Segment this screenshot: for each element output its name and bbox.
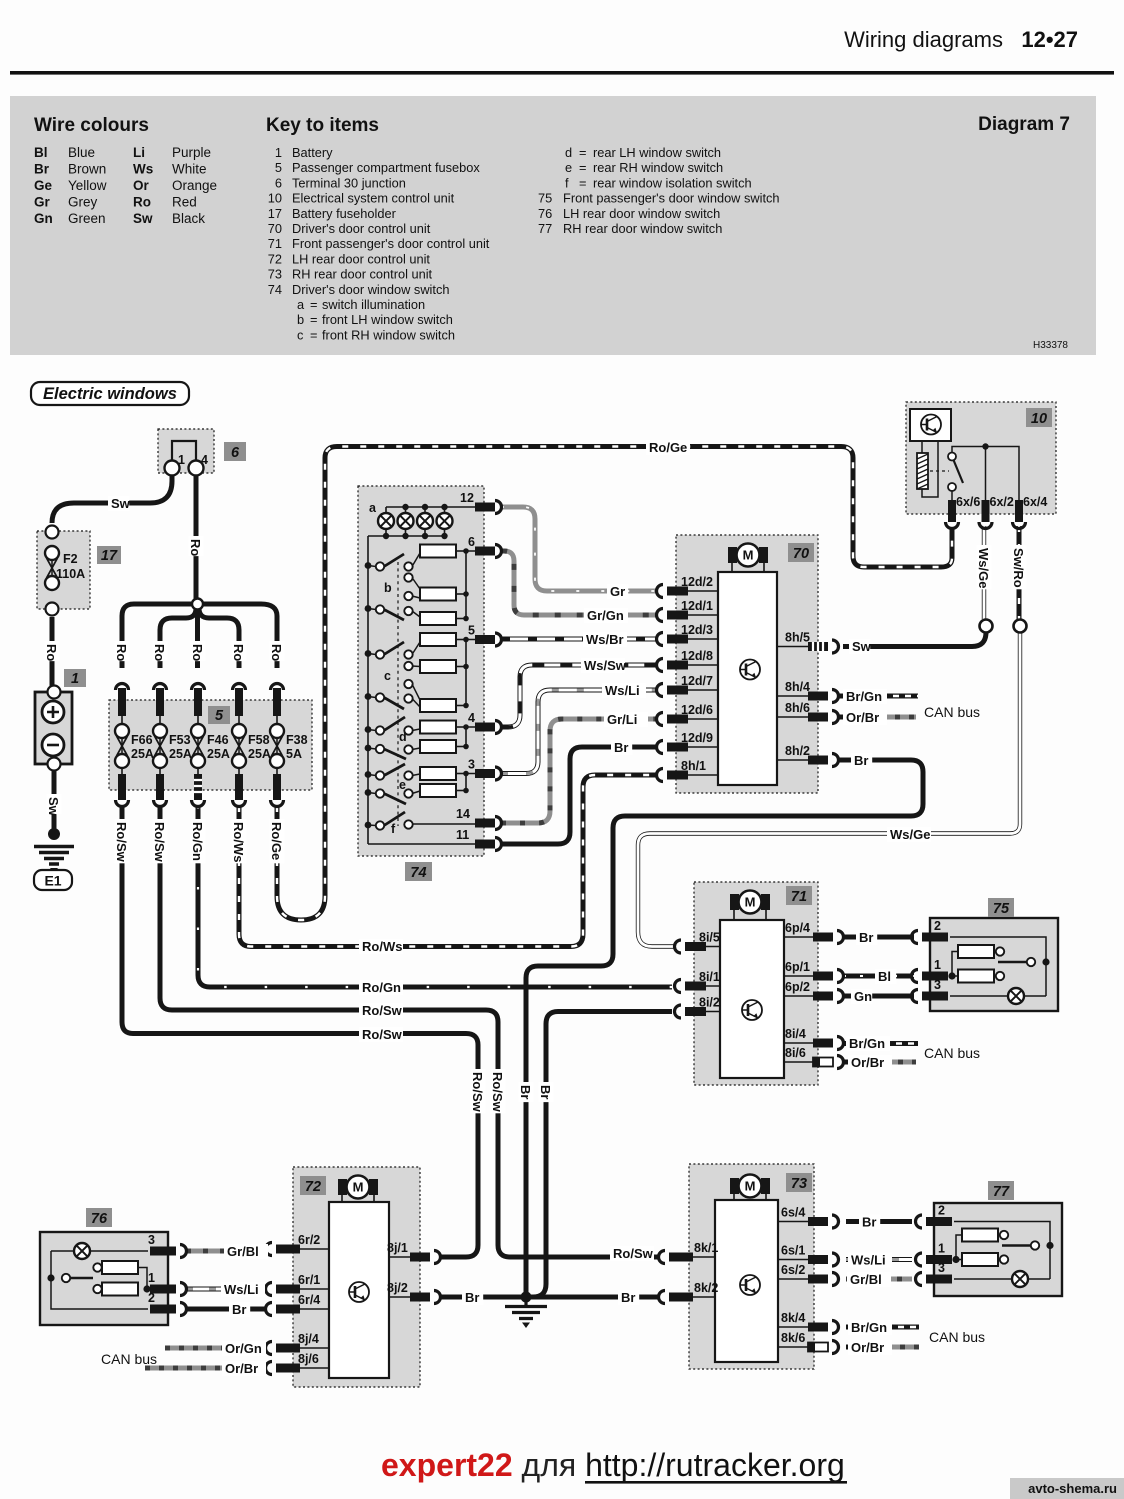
- wire: Br from 6s/4 to switch 77 pin 2: [846, 1219, 912, 1224]
- svg-text:6x/4: 6x/4: [1023, 495, 1047, 509]
- svg-text:front LH window switch: front LH window switch: [322, 312, 453, 327]
- svg-text:5: 5: [215, 708, 224, 724]
- svg-text:Or/Gn: Or/Gn: [225, 1341, 262, 1356]
- svg-text:8h/5: 8h/5: [785, 631, 810, 645]
- wire: Or/Gn CAN stub at 8j/4: [165, 1346, 265, 1351]
- svg-text:1: 1: [275, 145, 282, 160]
- svg-text:2: 2: [148, 1291, 155, 1305]
- fuse F46 25A: [191, 714, 230, 780]
- wire: Or/Br CAN stub at 8i/6: [843, 1060, 849, 1065]
- svg-text:Battery: Battery: [292, 145, 333, 160]
- fusebox connector above fuse F46: [192, 684, 205, 717]
- fuse F2 110A: [51, 553, 53, 583]
- wire label Ro/Gn: [359, 980, 403, 995]
- wire label Sw (junction 6 to fuseholder): [108, 496, 129, 511]
- rotated label Br vertical 2: [539, 1082, 554, 1102]
- fusebox connector above fuse F58: [233, 684, 246, 717]
- pin 2 of 77: [916, 1204, 952, 1229]
- svg-text:5: 5: [275, 160, 282, 175]
- pin 11 of 74: [456, 828, 502, 851]
- svg-text:a: a: [369, 501, 377, 515]
- svg-text:Br/Gn: Br/Gn: [849, 1036, 885, 1051]
- svg-text:Passenger compartment fusebox: Passenger compartment fusebox: [292, 160, 480, 175]
- pin 6r/2 of 72: [266, 1233, 329, 1256]
- wire: Br/Gn CAN stub at 8k/4: [846, 1325, 854, 1330]
- svg-text:Ro/Gn: Ro/Gn: [362, 980, 401, 995]
- pin 12d/9 of 70: [657, 731, 719, 754]
- svg-text:Gr/Bl: Gr/Bl: [850, 1272, 882, 1287]
- badge 17: [97, 546, 121, 564]
- pin 8i/6 of 71: [784, 1046, 844, 1069]
- svg-text:avto-shema.ru: avto-shema.ru: [1028, 1481, 1117, 1496]
- pin 8h/2 of 70: [777, 744, 839, 767]
- badge 75: [988, 898, 1014, 917]
- svg-text:17: 17: [101, 548, 118, 564]
- svg-text:Sw: Sw: [133, 211, 153, 226]
- svg-text:LH rear door window switch: LH rear door window switch: [563, 206, 720, 221]
- svg-text:White: White: [172, 162, 207, 177]
- svg-text:Ro/Sw: Ro/Sw: [613, 1246, 654, 1261]
- unit 72 body: [329, 1202, 389, 1378]
- switch 77 internals: [952, 1222, 1053, 1288]
- svg-text:CAN bus: CAN bus: [929, 1329, 985, 1345]
- svg-text:8h/6: 8h/6: [785, 701, 810, 715]
- wire label Br 6s/4: [859, 1215, 880, 1230]
- svg-text:E1: E1: [44, 873, 61, 889]
- svg-text:Li: Li: [133, 145, 145, 160]
- svg-text:8j/2: 8j/2: [387, 1281, 408, 1295]
- unit 73 body: [715, 1200, 778, 1362]
- rotated label Ws/Ge: [977, 545, 992, 589]
- pin 6p/1 of 71: [784, 960, 844, 983]
- wire: Ws/Li from switch 76 pin 1 to 6r/1: [186, 1287, 265, 1292]
- page header title: [844, 27, 1078, 52]
- unit 71 driver transistor: [742, 1000, 762, 1020]
- wire: Br from ground junction up to unit 71 pin 8i/2: [533, 1012, 672, 1298]
- svg-text:b: b: [384, 581, 392, 595]
- svg-text:Ws/Sw: Ws/Sw: [584, 658, 627, 673]
- pin 3 of 75: [912, 978, 949, 1003]
- wire label Bl 6p/1: [875, 969, 896, 984]
- badge 70: [788, 543, 814, 562]
- unit 10 driver box with transistor: [910, 409, 951, 441]
- switch 74 section b: [365, 553, 420, 620]
- rotated wire labels below fusebox: [115, 819, 130, 863]
- wire: Gr/Bl from switch 76 pin 3 to 6r/2: [186, 1249, 265, 1254]
- pin 3 of 77: [916, 1261, 952, 1286]
- svg-text:=: =: [310, 297, 317, 312]
- svg-text:Ro/Sw: Ro/Sw: [152, 822, 167, 863]
- svg-text:8h/4: 8h/4: [785, 680, 810, 694]
- wire: node branch to fuse F38: [198, 604, 277, 668]
- svg-text:=: =: [579, 175, 586, 190]
- wire label Br 76: [229, 1302, 250, 1317]
- rotated label Ro battery feed: [45, 641, 60, 661]
- junction 6 pin circles: [165, 461, 180, 476]
- unit 72 driver transistor: [349, 1282, 369, 1302]
- wire label Br/Gn 8i/4: [846, 1036, 890, 1051]
- wire label Gr/Bl 6s/2: [847, 1272, 891, 1287]
- pin 6r/4 of 72: [266, 1293, 329, 1316]
- wire: Br loop from unit 70 pin 8h/2 to ground junction: [526, 760, 923, 1294]
- wire label Ws/Li 76: [221, 1282, 265, 1297]
- svg-text:72: 72: [305, 1179, 321, 1195]
- svg-text:Ws/Li: Ws/Li: [851, 1253, 886, 1268]
- pin 6s/2 of 73: [778, 1263, 839, 1286]
- svg-text:4: 4: [468, 711, 475, 725]
- unit 73 motor: [730, 1175, 770, 1204]
- svg-text:=: =: [579, 145, 586, 160]
- svg-text:Ro: Ro: [44, 644, 59, 661]
- svg-text:M: M: [745, 895, 756, 910]
- pin 8i/1 of 71: [675, 970, 721, 993]
- earth tag E1: [34, 870, 72, 890]
- wire label Gr/Bl 76: [224, 1244, 268, 1259]
- svg-text:Or/Br: Or/Br: [846, 710, 879, 725]
- fusebox connector below fuse F53: [154, 774, 167, 807]
- svg-text:RH rear door window switch: RH rear door window switch: [563, 221, 722, 236]
- svg-text:M: M: [745, 1179, 756, 1194]
- svg-text:Br: Br: [465, 1290, 479, 1305]
- pin 14 of 74: [456, 807, 502, 830]
- wire: Sw/Ro from unit 10 pin 6x/4 down to connector node: [1017, 526, 1022, 619]
- wire: Ws/Br from switch 74 pin 5 to unit 70 pin 12d/3: [501, 637, 656, 642]
- unit 71 body: [720, 920, 784, 1078]
- fusebox 5 box: [109, 700, 312, 790]
- electrical system control unit 10 box: [906, 402, 1056, 514]
- door control unit 71 box: [694, 882, 818, 1085]
- svg-text:14: 14: [456, 807, 470, 821]
- wire: Ro/Sw from F53 to door unit 73 pin 8k/1: [160, 806, 658, 1257]
- pin 8h/1 of 70: [657, 759, 719, 782]
- svg-text:RH rear door control unit: RH rear door control unit: [292, 267, 433, 282]
- svg-text:=: =: [310, 327, 317, 342]
- switch 74 section f: [365, 812, 413, 836]
- battery plus terminal: [42, 701, 64, 723]
- svg-text:Or/Br: Or/Br: [225, 1361, 258, 1376]
- svg-text:Driver's door window switch: Driver's door window switch: [292, 282, 449, 297]
- section label: Electric windows: [31, 382, 189, 405]
- pin 8j/1 of 72: [387, 1241, 441, 1264]
- svg-text:Br: Br: [614, 740, 628, 755]
- svg-text:Ro: Ro: [188, 539, 203, 556]
- svg-text:Wire colours: Wire colours: [34, 115, 149, 136]
- wire label Ws/Li: [602, 683, 646, 698]
- svg-text:6x/6: 6x/6: [956, 495, 980, 509]
- connector node on Ws/Ge wire: [980, 620, 993, 633]
- unit 71 motor: [730, 891, 770, 920]
- svg-text:F38: F38: [286, 733, 308, 747]
- svg-text:25A: 25A: [131, 747, 154, 761]
- svg-text:Gn: Gn: [34, 211, 53, 226]
- switch 74 left rail: [367, 536, 369, 844]
- fusebox connector above fuse F53: [154, 684, 167, 717]
- fusebox connector below fuse F66: [116, 774, 129, 807]
- wire: Or/Br CAN stub at 8j/6: [145, 1366, 265, 1371]
- wire: Bl from 6p/1 to switch 75 pin 1: [843, 974, 914, 979]
- pin 8k/2 of 73: [659, 1281, 719, 1304]
- wire: Ws/Ge from unit 10 pin 6x/2 down to connector node: [982, 526, 986, 619]
- svg-text:3: 3: [934, 978, 941, 992]
- wire: fuseholder 17 to battery: [50, 617, 55, 686]
- svg-text:25A: 25A: [248, 747, 271, 761]
- pin 6x/2 of 10: [979, 495, 1014, 529]
- svg-text:Ro: Ro: [152, 644, 167, 661]
- pin 12d/1 of 70: [657, 599, 719, 622]
- wire: Ro/Sw from F66 to door unit 72 pin 8j/1: [122, 806, 478, 1257]
- unit 10 internal wiring: [952, 443, 1019, 500]
- svg-text:17: 17: [268, 206, 282, 221]
- fusebox connector above fuse F38: [271, 684, 284, 717]
- svg-text:CAN bus: CAN bus: [924, 704, 980, 720]
- fusebox connector below fuse F38: [271, 774, 284, 807]
- rotated label Sw/Ro: [1012, 545, 1027, 589]
- svg-text:Ws/Li: Ws/Li: [605, 683, 640, 698]
- svg-text:Wiring diagrams 12•27: Wiring diagrams 12•27: [844, 27, 1078, 52]
- wire: battery negative to ground E1: [52, 769, 57, 830]
- svg-text:6: 6: [275, 175, 282, 190]
- pin 6r/1 of 72: [266, 1273, 329, 1296]
- svg-text:Gr: Gr: [610, 584, 625, 599]
- wire: Br from 6p/4 to switch 75 pin 2: [843, 935, 914, 940]
- svg-text:3: 3: [938, 1261, 945, 1275]
- door control unit 70 box: [676, 535, 818, 793]
- svg-text:1: 1: [71, 671, 79, 687]
- svg-text:3: 3: [148, 1233, 155, 1247]
- svg-text:Ws: Ws: [133, 162, 153, 177]
- svg-text:Black: Black: [172, 211, 205, 226]
- svg-text:c: c: [384, 669, 391, 683]
- door control unit 73 box: [689, 1164, 814, 1369]
- svg-text:Gr/Gn: Gr/Gn: [587, 608, 624, 623]
- svg-text:Or/Br: Or/Br: [851, 1340, 884, 1355]
- wire label Ro/Sw lower: [359, 1027, 403, 1042]
- svg-text:70: 70: [268, 221, 282, 236]
- badge 71: [786, 886, 812, 905]
- wire: Gr from switch 74 pin 12 to unit 70 pin 12d/2: [501, 507, 656, 591]
- unit 70 motor: [728, 544, 768, 573]
- connector node on Sw/Ro wire: [1014, 620, 1027, 633]
- svg-text:77: 77: [538, 221, 552, 236]
- pin 12d/3 of 70: [657, 623, 719, 646]
- unit 10 relay switch: [930, 453, 963, 492]
- pin 1 of 77: [916, 1242, 952, 1267]
- svg-text:Terminal 30 junction: Terminal 30 junction: [292, 175, 406, 190]
- fusebox connector below fuse F58: [233, 774, 246, 807]
- svg-text:M: M: [743, 548, 754, 563]
- wire label Or/Gn 76: [222, 1341, 266, 1356]
- svg-text:F46: F46: [207, 733, 229, 747]
- fuse F66 25A: [115, 714, 154, 780]
- fuse F38 5A: [270, 714, 308, 780]
- svg-text:Ro/Sw: Ro/Sw: [362, 1003, 403, 1018]
- pin 3 of 74: [468, 758, 502, 781]
- badge 77: [988, 1181, 1014, 1200]
- svg-text:1: 1: [938, 1242, 945, 1256]
- wire: node branch to fuse F53: [160, 608, 196, 668]
- wire: Br from switch 76 pin 2 to 6r/4: [186, 1307, 265, 1312]
- svg-text:76: 76: [91, 1211, 108, 1227]
- wire: Ws/Sw from switch 74 pin 4 to unit 70 pin 12d/8: [501, 665, 656, 727]
- svg-text:6p/2: 6p/2: [785, 980, 810, 994]
- pin 8k/6 of 73: [778, 1331, 839, 1354]
- svg-text:LH rear door control unit: LH rear door control unit: [292, 251, 430, 266]
- wire: Sw from connector node to unit 70 pin 8h/5: [843, 632, 986, 647]
- svg-text:Blue: Blue: [68, 145, 95, 160]
- svg-text:70: 70: [793, 546, 809, 562]
- unit 10 relay coil: [917, 441, 938, 497]
- svg-text:75: 75: [993, 901, 1010, 917]
- badge 5: [208, 706, 230, 724]
- ground symbol E1: [34, 847, 74, 874]
- svg-text:3: 3: [468, 758, 475, 772]
- svg-text:11: 11: [456, 828, 469, 842]
- svg-text:Red: Red: [172, 195, 197, 210]
- svg-text:Ro: Ro: [190, 644, 205, 661]
- svg-text:F2: F2: [63, 552, 78, 566]
- battery minus terminal: [42, 734, 64, 756]
- pin 8k/4 of 73: [778, 1311, 839, 1334]
- ground junction dot E1: [48, 828, 60, 840]
- svg-text:25A: 25A: [207, 747, 230, 761]
- wire: Or/Br CAN stub at 8k/6: [846, 1345, 852, 1350]
- wire label Ws/Ge: [887, 827, 931, 842]
- pin 8h/4 of 70: [777, 680, 839, 703]
- wire label Ro/Ws: [359, 939, 403, 954]
- wire label Br left of ground: [462, 1290, 483, 1305]
- svg-text:Ro/Sw: Ro/Sw: [362, 1027, 403, 1042]
- pin 4 of 74: [468, 711, 502, 734]
- svg-text:6r/1: 6r/1: [298, 1273, 320, 1287]
- svg-text:M: M: [353, 1180, 364, 1195]
- svg-text:Ro/Ge: Ro/Ge: [269, 822, 284, 860]
- wire label Gr: [607, 584, 628, 599]
- svg-text:Orange: Orange: [172, 178, 217, 193]
- svg-text:d: d: [565, 145, 572, 160]
- unit 73 driver transistor: [740, 1275, 760, 1295]
- svg-text:Ge: Ge: [34, 178, 53, 193]
- wire label Br 8h/2: [851, 753, 872, 768]
- switch 74 section e: [365, 764, 420, 804]
- svg-text:Ws/Ge: Ws/Ge: [890, 827, 930, 842]
- wire: Gr/Gn from switch 74 pin 6 to unit 70 pin 12d/1: [501, 551, 656, 615]
- svg-text:f: f: [565, 175, 569, 190]
- switch 74 section c: [365, 642, 420, 709]
- svg-text:Electrical system control unit: Electrical system control unit: [292, 191, 455, 206]
- svg-text:Purple: Purple: [172, 145, 211, 160]
- svg-text:1: 1: [148, 1271, 155, 1285]
- pin 1 of 75: [912, 958, 949, 983]
- key list column 1: [268, 145, 490, 342]
- rotated label Br vertical 1: [519, 1082, 534, 1102]
- wire label Br/Gn 8h/4: [843, 689, 887, 704]
- distribution node circle: [192, 599, 203, 610]
- wire label Br/Gn 8k/4: [848, 1320, 892, 1335]
- svg-text:76: 76: [538, 206, 552, 221]
- pin 12 of 74: [460, 491, 502, 514]
- wire label Or/Br 8h/6: [843, 710, 887, 725]
- pin 2 of 75: [912, 919, 949, 944]
- svg-text:75: 75: [538, 191, 552, 206]
- switch 74 resistor contact plates: [420, 545, 456, 798]
- svg-text:6s/2: 6s/2: [781, 1263, 805, 1277]
- svg-text:Br: Br: [862, 1215, 876, 1230]
- svg-text:10: 10: [1031, 411, 1047, 427]
- rotated label Ro on junction-to-node wire: [189, 536, 204, 556]
- pin 12d/2 of 70: [657, 575, 719, 598]
- wire: Ro/Ge from F38 up and across to unit 10 pin 6x/6: [277, 447, 952, 921]
- pin 12d/8 of 70: [657, 649, 719, 672]
- pin 2 of 76: [148, 1291, 186, 1316]
- svg-text:71: 71: [268, 236, 282, 251]
- wire label Or/Br 76: [222, 1361, 266, 1376]
- svg-text:5A: 5A: [286, 747, 302, 761]
- svg-text:c: c: [297, 327, 304, 342]
- pin 8j/6 of 72: [266, 1352, 329, 1375]
- pin 1 of 76: [148, 1271, 186, 1296]
- pin 8k/1 of 73: [659, 1241, 719, 1264]
- rotated label Ro/Sw vertical 2: [491, 1069, 506, 1113]
- key list column 2: [538, 145, 780, 236]
- wire label Sw 8h/5: [849, 639, 870, 654]
- battery unit 1: [35, 686, 72, 771]
- unit 70 body: [718, 572, 777, 785]
- wire label Ro/Ge: [646, 440, 690, 455]
- driver door window switch 74 box: [358, 486, 484, 856]
- svg-text:Diagram 7: Diagram 7: [978, 114, 1070, 135]
- wire: Sw battery junction 6 pin1 to fuseholder 17: [52, 474, 172, 523]
- pin 6x/6 of 10: [946, 495, 981, 529]
- svg-text:73: 73: [791, 1176, 807, 1192]
- switch 74 section d: [365, 717, 420, 759]
- fuseholder 17 box: [37, 526, 90, 616]
- door control unit 72 box: [293, 1167, 420, 1387]
- svg-text:CAN bus: CAN bus: [101, 1351, 157, 1367]
- wire: Br from switch 74 pin 11 to unit 70 pin 12d/9: [501, 747, 656, 844]
- wire label Ws/Br: [583, 632, 627, 647]
- svg-text:Br: Br: [538, 1085, 553, 1099]
- wire: Gr/Li from switch 74 pin 14 to unit 70 pin 12d/6: [501, 719, 656, 823]
- svg-text:Ro/Sw: Ro/Sw: [470, 1072, 485, 1113]
- svg-text:Sw: Sw: [111, 496, 131, 511]
- pin 5 of 74: [468, 624, 502, 647]
- switch 76 internals: [47, 1243, 150, 1309]
- window switch 75 box: [930, 918, 1058, 1011]
- svg-text:72: 72: [268, 251, 282, 266]
- svg-text:2: 2: [938, 1204, 945, 1218]
- svg-text:Bl: Bl: [878, 969, 891, 984]
- svg-text:8k/4: 8k/4: [781, 1311, 805, 1325]
- svg-text:Sw/Ro: Sw/Ro: [1011, 548, 1026, 588]
- rotated label Ro/Sw vertical 1: [471, 1069, 486, 1113]
- svg-text:8j/1: 8j/1: [387, 1241, 408, 1255]
- svg-text:6p/1: 6p/1: [785, 960, 810, 974]
- svg-text:Br: Br: [859, 930, 873, 945]
- svg-text:Driver's door control unit: Driver's door control unit: [292, 221, 431, 236]
- pin 8i/4 of 71: [784, 1027, 844, 1050]
- svg-text:Ro/Ws: Ro/Ws: [362, 939, 402, 954]
- pin 8h/5 of 70: [777, 631, 839, 654]
- svg-text:6r/4: 6r/4: [298, 1293, 320, 1307]
- svg-text:rear LH window switch: rear LH window switch: [593, 145, 721, 160]
- ground junction dot centre: [521, 1292, 532, 1303]
- pin 8j/4 of 72: [266, 1332, 329, 1355]
- switch 74 illumination lamps (a): [368, 501, 455, 539]
- svg-text:10: 10: [268, 191, 282, 206]
- window switch 76 box: [40, 1232, 168, 1325]
- svg-text:=: =: [310, 312, 317, 327]
- wire: Ro/Ws from F58 to unit 70 pin 8h/1: [239, 775, 656, 947]
